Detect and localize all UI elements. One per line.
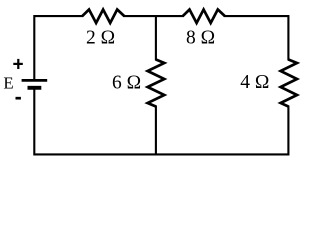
svg-text:E: E bbox=[3, 73, 13, 92]
svg-text:6 Ω: 6 Ω bbox=[112, 72, 141, 93]
svg-text:4 Ω: 4 Ω bbox=[240, 72, 269, 93]
svg-text:8 Ω: 8 Ω bbox=[186, 28, 215, 49]
svg-text:2 Ω: 2 Ω bbox=[86, 28, 115, 49]
